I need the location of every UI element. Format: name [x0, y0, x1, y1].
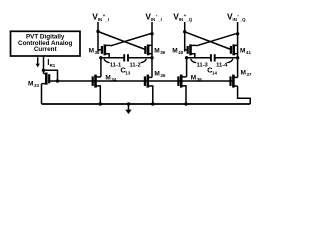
node VIN-I label — [145, 12, 161, 23]
svg-text:IN: IN — [98, 17, 102, 22]
node dot on VIN-I wire — [150, 32, 153, 35]
node dot M37 drain — [236, 56, 239, 59]
transistor M38 — [102, 44, 111, 57]
svg-text:36: 36 — [197, 77, 202, 82]
svg-text:14: 14 — [212, 70, 217, 75]
node dot M34 source on rail — [99, 102, 102, 105]
svg-text:11-3: 11-3 — [197, 63, 209, 69]
transistor M35 — [145, 75, 153, 104]
node dot on VIN+I wire — [96, 30, 99, 33]
wire M36 drain vertical — [186, 58, 188, 77]
node dot M35 source on rail — [151, 102, 154, 105]
wire gate stub M38 — [98, 49, 102, 51]
ground — [125, 104, 131, 114]
callout 11-1 — [104, 59, 122, 69]
transistor M41 — [231, 44, 238, 55]
node VIN-Q label — [227, 12, 246, 23]
node: M33 drain-gate junction dot — [42, 69, 45, 72]
svg-text:_Q: _Q — [185, 17, 192, 22]
wire VIN-Q input / M41 drain chain — [237, 22, 239, 58]
label M40 — [172, 48, 183, 56]
node dot M36 source on rail — [184, 102, 187, 105]
wire capacitor node left — [99, 57, 124, 59]
svg-text:13: 13 — [125, 70, 130, 75]
svg-text:37: 37 — [247, 72, 252, 77]
svg-text:M: M — [154, 48, 159, 55]
transistor M39 — [145, 44, 152, 55]
svg-text:_I: _I — [157, 17, 162, 22]
label M38 — [89, 48, 100, 56]
svg-text:11-4: 11-4 — [216, 63, 228, 69]
label M34 — [105, 75, 116, 83]
svg-text:M: M — [89, 48, 94, 55]
node dot M35 drain — [150, 56, 153, 59]
wire cross-couple diagonal from M38 drain to VIN-I — [111, 33, 152, 46]
svg-text:40: 40 — [178, 50, 183, 55]
label M39 — [154, 48, 165, 56]
svg-text:35: 35 — [160, 73, 165, 78]
svg-text:38: 38 — [95, 50, 100, 55]
node dot on VIN+Q wire — [183, 30, 186, 33]
svg-text:34: 34 — [111, 77, 116, 82]
wire M33 source to rail — [41, 84, 43, 104]
capacitor C13 — [124, 54, 128, 61]
label M35 — [154, 70, 165, 78]
label C14 — [207, 66, 217, 76]
wire capacitor node right — [128, 57, 152, 59]
wire ground rail — [42, 103, 251, 105]
svg-text:41: 41 — [246, 50, 251, 55]
svg-text:M: M — [191, 75, 196, 82]
transistor M34 — [93, 75, 101, 104]
wire cross-couple diagonal to M39 gate — [98, 32, 145, 50]
node dot M34 drain — [99, 56, 102, 59]
wire VIN+I input — [97, 22, 99, 52]
wire box to M33 drain — [43, 56, 45, 74]
svg-text:IN: IN — [233, 17, 237, 22]
node VIN+Q label — [173, 12, 192, 23]
transistor M40 — [188, 44, 197, 57]
wire VIN-I input / M39 drain chain — [151, 22, 153, 58]
svg-text:M: M — [172, 48, 177, 55]
wire gate stub M40 — [185, 49, 188, 51]
node dot M36 drain — [185, 56, 188, 59]
capacitor C14 — [211, 54, 215, 61]
callout 11-2 — [130, 59, 147, 69]
wire capacitor node left Q — [185, 57, 211, 59]
current arrow IR1 — [36, 57, 40, 67]
wire M37 drain vertical — [237, 58, 239, 78]
transistor M33 — [42, 73, 58, 85]
callout 11-3 — [191, 59, 209, 69]
wire M34 drain vertical — [100, 58, 102, 77]
svg-text:M: M — [240, 48, 245, 55]
svg-text:39: 39 — [160, 50, 165, 55]
node dot on VIN-Q wire — [236, 32, 239, 35]
svg-text:M: M — [105, 75, 110, 82]
wire cross-couple diagonal to M41 gate — [185, 32, 231, 50]
label M33 — [28, 81, 39, 89]
wire diode connection M33 — [44, 70, 58, 81]
wire M35 drain vertical — [151, 58, 153, 78]
svg-text:M: M — [241, 70, 246, 77]
node: ground junction dot — [127, 102, 130, 105]
label M37 — [241, 70, 252, 78]
wire VIN+Q input — [184, 22, 186, 52]
svg-text:_Q: _Q — [239, 17, 246, 22]
wire cross-couple diagonal from M40 drain to VIN-Q — [196, 33, 237, 46]
label M36 — [191, 75, 202, 83]
svg-text:IN: IN — [179, 17, 183, 22]
node VIN+I label — [92, 12, 109, 23]
label C13 — [120, 66, 130, 76]
wire gate bus — [58, 80, 233, 82]
wire capacitor node right Q — [215, 57, 238, 59]
wire M37 source jog to rail end — [238, 86, 251, 104]
label M41 — [240, 48, 251, 56]
svg-text:IN: IN — [151, 17, 155, 22]
svg-text:_I: _I — [104, 17, 109, 22]
transistor M37 — [231, 75, 238, 88]
svg-text:11-1: 11-1 — [110, 63, 122, 69]
svg-text:11-2: 11-2 — [130, 63, 141, 69]
callout 11-4 — [216, 59, 233, 69]
label IR1 — [47, 58, 55, 68]
PVT box U1 — [11, 31, 81, 56]
svg-text:33: 33 — [34, 83, 39, 88]
svg-text:M: M — [154, 70, 159, 77]
transistor M36 — [178, 75, 186, 104]
svg-text:M: M — [28, 81, 33, 88]
svg-text:R1: R1 — [50, 63, 56, 68]
svg-text:Current: Current — [34, 46, 58, 53]
node: gate bus junction dot — [56, 79, 59, 82]
